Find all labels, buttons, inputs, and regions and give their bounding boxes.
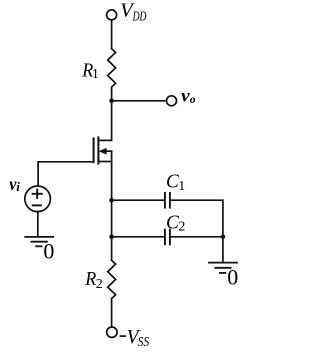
node source/C1 xyxy=(109,198,114,203)
svg-text:o: o xyxy=(190,94,196,106)
plus sign of vi xyxy=(32,189,43,206)
node C2 xyxy=(109,235,114,240)
resistor R1 xyxy=(108,49,116,90)
svg-text:DD: DD xyxy=(132,9,147,24)
terminal -VSS xyxy=(107,327,117,337)
node right rail xyxy=(221,235,226,240)
wire right rail to ground xyxy=(222,237,224,262)
terminal vo xyxy=(167,96,177,106)
terminal VDD xyxy=(107,10,117,20)
wire gate xyxy=(38,162,93,186)
svg-text:1: 1 xyxy=(178,179,185,194)
svg-text:i: i xyxy=(16,179,20,194)
wire source to C1/C2/R2 xyxy=(111,162,113,261)
capacitor C2 xyxy=(165,230,170,245)
svg-text:1: 1 xyxy=(92,67,99,82)
label -VSS xyxy=(120,335,127,337)
ground right xyxy=(209,263,237,273)
svg-text:R: R xyxy=(84,268,96,290)
resistor R2 xyxy=(108,260,116,298)
svg-text:2: 2 xyxy=(96,277,103,292)
wire node to vo xyxy=(112,100,167,102)
capacitor C1 xyxy=(165,193,170,208)
svg-text:2: 2 xyxy=(178,219,185,234)
wire R1 to drain xyxy=(111,89,113,140)
source vi xyxy=(25,186,51,212)
arrow of Q1 xyxy=(99,148,107,155)
minus sign of vi xyxy=(32,204,42,206)
wire R2 to -VSS xyxy=(111,299,113,327)
wire C1 to right rail xyxy=(171,200,223,237)
wire node1 to C1 xyxy=(112,199,165,201)
ground left xyxy=(25,237,53,246)
node drain xyxy=(109,99,114,104)
wire node2 to C2 xyxy=(112,236,165,238)
svg-text:0: 0 xyxy=(227,265,238,290)
svg-text:SS: SS xyxy=(138,335,150,350)
wire C2 to right rail xyxy=(171,236,223,238)
wire VDD to R1 xyxy=(111,20,113,49)
transistor Q1 xyxy=(94,137,112,163)
wire vi to ground xyxy=(37,212,39,237)
svg-text:0: 0 xyxy=(43,238,54,263)
